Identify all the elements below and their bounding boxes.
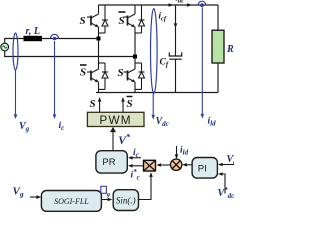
svg-text:S: S <box>119 15 125 27</box>
wire Sin to multiplier square <box>139 172 153 199</box>
current sensor node i_c <box>50 34 58 40</box>
svg-text:PI: PI <box>198 163 207 174</box>
bottom DC rail <box>96 92 218 94</box>
label theta_g (tofu glyph) <box>101 186 111 198</box>
svg-text:S: S <box>90 98 96 110</box>
svg-text:g: g <box>106 191 111 198</box>
label S-bar (Q3) <box>80 65 87 79</box>
multiplier circle (x) <box>171 159 182 170</box>
measurement line Vdc <box>151 94 155 120</box>
IGBT Q4 bottom-right (S) <box>124 63 145 93</box>
wire cap to bottom rail <box>175 59 177 92</box>
svg-text:PWM: PWM <box>99 113 131 127</box>
wire i_ld into multiplier circle <box>175 146 179 159</box>
capacitor branch wire <box>175 5 177 56</box>
multiplier X (square) <box>144 160 156 171</box>
gate signal arrow S-bar <box>121 97 125 112</box>
svg-text:SOGI-FLL: SOGI-FLL <box>54 197 89 206</box>
gate signal arrow S <box>98 97 102 112</box>
IGBT Q1 top-left (S) <box>87 5 108 33</box>
block PI <box>192 158 217 179</box>
voltage probe ellipse Vg <box>13 33 18 70</box>
left leg mid wire <box>98 33 100 63</box>
wire theta to Sin <box>101 198 112 202</box>
resistor R <box>212 30 224 63</box>
measurement line i_c <box>53 41 57 119</box>
wire V*_dc into PI <box>218 172 225 193</box>
svg-text:S: S <box>80 15 86 27</box>
wire i_c into PR <box>128 156 141 160</box>
node phase B (junction dot) <box>133 55 137 59</box>
IGBT Q3 bottom-left (S bar) <box>87 63 108 93</box>
wire i*_c multiplier to PR <box>128 164 144 168</box>
arrow i_cf <box>174 23 178 28</box>
wire R to bottom rail <box>217 63 219 93</box>
svg-text:S: S <box>80 67 86 79</box>
block PR <box>96 151 127 173</box>
right leg mid wire <box>134 33 136 63</box>
svg-text:Sin(.): Sin(.) <box>116 196 136 206</box>
svg-text:S: S <box>127 98 133 110</box>
wire V* PR to PWM <box>110 127 116 151</box>
svg-text:r, L: r, L <box>26 26 40 37</box>
label S-bar (Q2) <box>119 12 126 27</box>
wire V_g into SOGI <box>30 195 41 199</box>
voltage probe ellipse Vdc <box>151 9 158 94</box>
block PWM <box>87 112 144 127</box>
wire PI to multiplier circle <box>182 163 192 167</box>
wire to load R <box>217 5 219 30</box>
AC source Vg <box>1 43 9 51</box>
svg-text:S: S <box>118 67 124 79</box>
block SOGI-FLL <box>41 191 101 212</box>
wire V_dc into PI <box>218 163 234 167</box>
svg-text:Vdc: Vdc <box>227 154 235 166</box>
wire multiplier-circle to multiplier-square <box>157 163 172 167</box>
label S-bar (gate signal) <box>127 97 133 111</box>
IGBT Q2 top-right (S bar) <box>124 5 145 33</box>
current sensor node i_ld <box>198 1 206 7</box>
svg-text:R: R <box>226 44 234 55</box>
measurement line i_ld <box>201 8 205 119</box>
resistor r (series) <box>24 36 43 41</box>
measurement line Vg <box>14 70 18 119</box>
wire top AC <box>5 39 99 44</box>
node phase A (junction dot) <box>97 37 101 41</box>
arrow on top rail 1 <box>169 3 174 7</box>
block Sin(.) <box>113 190 138 211</box>
capacitor C_f <box>169 52 181 59</box>
arrow on top rail 2 <box>187 3 192 7</box>
wire bottom AC <box>5 51 135 57</box>
top DC rail <box>99 4 219 6</box>
svg-text:PR: PR <box>102 157 115 168</box>
